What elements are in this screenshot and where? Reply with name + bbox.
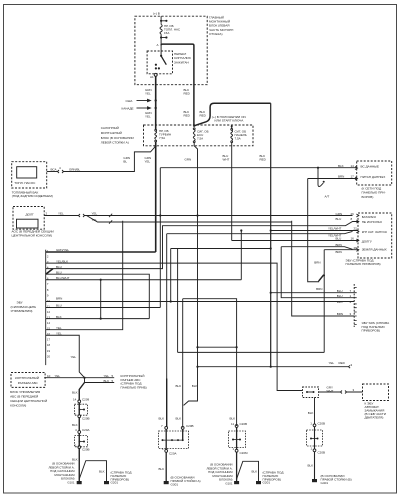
svg-text:САЛОННЫЙ: САЛОННЫЙ xyxy=(101,126,119,130)
pin4-5 wedge arrow xyxy=(46,269,53,275)
svg-text:WHT: WHT xyxy=(223,158,230,162)
svg-text:YEL/WHT: YEL/WHT xyxy=(328,227,342,231)
svg-text:BLU: BLU xyxy=(336,217,342,221)
svg-text:ВС ДАННЫЕ: ВС ДАННЫЕ xyxy=(361,165,379,169)
svg-text:BL: BL xyxy=(123,160,127,164)
wire: BLK/RED branch to right feeder xyxy=(194,103,271,126)
svg-text:ВСА: ВСА xyxy=(51,167,57,171)
svg-text:YEL: YEL xyxy=(92,218,98,222)
wire: V170 drop to BRN row corner xyxy=(170,249,172,302)
starter lock ECU box (dashed) xyxy=(363,384,389,401)
splice box 1b xyxy=(78,433,80,445)
svg-text:ПИТАН ДАННЫХ: ПИТАН ДАННЫХ xyxy=(361,175,386,179)
diagnostic link connector box (right top) xyxy=(357,161,392,185)
fuel pump unit box (dashed) xyxy=(12,162,47,188)
svg-text:7,5А: 7,5А xyxy=(159,136,165,140)
svg-text:C20A: C20A xyxy=(169,451,177,455)
svg-text:(+) B: (+) B xyxy=(153,12,160,16)
svg-text:КОНСОЛИ): КОНСОЛИ) xyxy=(10,404,26,408)
svg-text:BLK: BLK xyxy=(56,315,62,319)
svg-text:20: 20 xyxy=(47,354,51,358)
ground texts left xyxy=(206,463,233,486)
ABS check connector box (left bottom, dashed) xyxy=(11,373,45,388)
svg-text:C20B: C20B xyxy=(186,424,194,428)
svg-text:C20M: C20M xyxy=(240,451,249,455)
svg-text:США: США xyxy=(126,99,133,103)
svg-text:C20A: C20A xyxy=(82,428,90,432)
pin10 wire BRN long to SRS xyxy=(46,301,355,303)
interior junction block (dashed) with 3 fuses xyxy=(144,125,254,146)
pin13 loop bottom row xyxy=(46,318,150,320)
junction dots above fuse xyxy=(160,20,167,22)
connector C20M exit xyxy=(235,449,238,452)
wire: splice to starter-lock ECU box xyxy=(319,391,363,393)
wire to ground G301 xyxy=(165,452,167,481)
svg-text:RED: RED xyxy=(260,158,267,162)
svg-text:YEL: YEL xyxy=(55,374,61,378)
pin1 wire GRN/YEL from main power xyxy=(46,251,156,253)
svg-text:14: 14 xyxy=(73,398,77,402)
svg-text:G301: G301 xyxy=(171,482,179,486)
svg-text:УПРАВЛЕНИЯ): УПРАВЛЕНИЯ) xyxy=(11,309,33,313)
svg-text:GRN: GRN xyxy=(336,212,343,216)
svg-text:BRN: BRN xyxy=(316,287,322,291)
svg-text:BLU: BLU xyxy=(56,304,62,308)
pin3 wire YEL/BLK to MAC feeder xyxy=(46,263,303,390)
svg-text:ЛЕВОЙ СТОЙКИ А): ЛЕВОЙ СТОЙКИ А) xyxy=(101,141,129,145)
V240.8 link down to pin6 row xyxy=(240,231,242,280)
svg-text:BLU: BLU xyxy=(337,289,343,293)
row BLU pin16 xyxy=(232,240,358,242)
svg-text:BLU: BLU xyxy=(56,270,62,274)
connector C20B exit xyxy=(313,449,316,452)
svg-text:BLK: BLK xyxy=(308,411,314,415)
rows BRN pair pin28 xyxy=(281,247,358,250)
connector C20B lower xyxy=(78,446,81,449)
svg-text:BLK: BLK xyxy=(176,417,182,421)
wire: splice branch down to cluster 4 xyxy=(314,398,316,425)
svg-text:BLU: BLU xyxy=(337,300,343,304)
connector C209 xyxy=(78,400,81,403)
wire: cross link to fuse drop xyxy=(198,346,237,348)
svg-text:G201: G201 xyxy=(111,481,119,485)
wire: link over to cluster3 feeder xyxy=(183,299,237,426)
svg-text:BLK: BLK xyxy=(338,164,344,168)
fuse ПР.ОБ ТУРБИН 7.5А xyxy=(155,129,157,142)
A/T branch switch xyxy=(317,167,325,183)
svg-text:10: 10 xyxy=(47,299,51,303)
svg-text:BLK: BLK xyxy=(99,469,105,473)
SRS row1 from right feeder xyxy=(271,292,355,294)
wire: ABS YEL row xyxy=(44,377,114,379)
fuel pump inner box xyxy=(17,167,37,178)
connector C20B xyxy=(78,415,81,418)
ECU pin numbers 1-20 xyxy=(47,249,51,358)
svg-text:BLU: BLU xyxy=(336,237,342,241)
svg-text:RED: RED xyxy=(339,361,346,365)
ground left xyxy=(234,481,239,484)
svg-text:14: 14 xyxy=(47,321,51,325)
ignition switch S (blade) xyxy=(160,47,162,56)
P-switch on ground-data wire xyxy=(323,250,325,353)
svg-text:BLK: BLK xyxy=(72,423,78,427)
svg-text:НЕ ИСПОЛЬЗ: НЕ ИСПОЛЬЗ xyxy=(362,220,382,224)
svg-text:BLU/WHT: BLU/WHT xyxy=(56,276,70,280)
svg-text:YEL: YEL xyxy=(58,211,64,215)
svg-text:12: 12 xyxy=(47,310,51,314)
V291 drop to SRS row1 xyxy=(292,221,355,316)
svg-text:10: 10 xyxy=(47,374,51,378)
svg-text:WHT: WHT xyxy=(327,389,334,393)
junction dot on main wire xyxy=(154,145,156,147)
wire: AOC YEL out xyxy=(44,215,352,217)
svg-text:БАТАРЕЯ: БАТАРЕЯ xyxy=(362,215,376,219)
svg-text:C20B: C20B xyxy=(318,451,326,455)
svg-text:BLK: BLK xyxy=(159,467,165,471)
svg-text:BLK: BLK xyxy=(192,384,198,388)
svg-text:БОРОВ): БОРОВ) xyxy=(362,195,374,199)
ground G101 xyxy=(77,481,82,484)
svg-text:A: A xyxy=(157,43,159,47)
svg-text:GRN/BL: GRN/BL xyxy=(69,167,81,171)
svg-text:ЦЕНТРАЛЬНОЙ КОНСОЛИ): ЦЕНТРАЛЬНОЙ КОНСОЛИ) xyxy=(12,234,52,238)
ground texts G101 xyxy=(48,462,75,485)
svg-text:BLK: BLK xyxy=(104,379,110,383)
connector C20A xyxy=(78,431,81,434)
connector C20B xyxy=(235,425,238,428)
svg-text:18: 18 xyxy=(47,343,51,347)
svg-text:YEL: YEL xyxy=(56,326,62,330)
svg-text:BLK: BLK xyxy=(308,464,314,468)
svg-text:C20B: C20B xyxy=(318,422,326,426)
svg-text:YEL/BLK: YEL/BLK xyxy=(56,259,68,263)
svg-text:ТОПЛ. НАСОС: ТОПЛ. НАСОС xyxy=(14,181,36,185)
splice box 2 xyxy=(166,429,183,449)
wire down from ABS junction xyxy=(79,383,84,401)
fuse СИГ.ОБ ECU 7.5А xyxy=(193,128,195,143)
main fuse/relay box (dashed) top xyxy=(135,16,207,85)
svg-text:YEL: YEL xyxy=(71,355,77,359)
svg-text:GRN/YEL: GRN/YEL xyxy=(56,248,70,252)
wire: battery feed into fuse xyxy=(160,16,162,24)
svg-text:G101: G101 xyxy=(67,481,74,485)
svg-text:МОНТАЖНЫЙ: МОНТАЖНЫЙ xyxy=(101,131,122,135)
rows YEL/WHT pair pin22 xyxy=(167,231,358,234)
svg-text:C20B: C20B xyxy=(240,422,248,426)
branch to ground right xyxy=(237,461,259,481)
splice slash ticks xyxy=(109,214,112,224)
svg-text:G101: G101 xyxy=(225,482,232,486)
ground run from KGR row down to splice cluster 2 xyxy=(166,234,168,379)
svg-text:БЛОК УПРАВЛЕНИЯ: БЛОК УПРАВЛЕНИЯ xyxy=(10,390,40,394)
svg-text:GRN: GRN xyxy=(185,158,192,162)
svg-text:СЕКЦИИ ЦЕНТРАЛЬНОЙ: СЕКЦИИ ЦЕНТРАЛЬНОЙ xyxy=(10,399,47,403)
svg-text:7,5А: 7,5А xyxy=(197,137,203,141)
svg-text:G201: G201 xyxy=(263,481,271,485)
wire: BRN row to pin 17 xyxy=(308,178,357,180)
svg-text:БЛОК (В ОСНОВАНИИ: БЛОК (В ОСНОВАНИИ xyxy=(101,136,134,140)
svg-text:КОНТРОЛЬНЫЙ: КОНТРОЛЬНЫЙ xyxy=(15,376,39,380)
cluster ECU box (right, battery rows) xyxy=(358,213,392,258)
AOC sensor box (dashed) xyxy=(13,207,44,230)
inline connector on AOC wire xyxy=(79,214,85,217)
wire: V177 drop to bottom long row xyxy=(177,249,179,353)
svg-text:BLK: BLK xyxy=(159,417,165,421)
svg-text:ПАНЕЛЬЮ ПРИБ): ПАНЕЛЬЮ ПРИБ) xyxy=(121,385,147,389)
wire: BLK row to pin 14 xyxy=(160,167,356,169)
svg-text:RED: RED xyxy=(184,113,191,117)
svg-text:BRN: BRN xyxy=(338,175,344,179)
svg-text:BLK: BLK xyxy=(176,384,182,388)
svg-text:RED: RED xyxy=(184,92,191,96)
svg-text:ДОЛГ: ДОЛГ xyxy=(26,213,34,217)
svg-text:17: 17 xyxy=(351,175,355,179)
connector C20B xyxy=(313,424,316,427)
wire: long row to P-switch leg xyxy=(178,351,325,353)
svg-text:YEL: YEL xyxy=(145,160,151,164)
splice box 1a xyxy=(78,403,80,415)
pin4 wire BLU up and over to right box pin8 xyxy=(46,222,358,269)
pin15 wire YEL from AOC branch xyxy=(46,221,123,330)
pin16 wire YEL down to ABS junction xyxy=(46,335,85,377)
connector C20A exit xyxy=(165,450,168,453)
splice box 4 xyxy=(314,427,316,449)
splice dots USA / CANADA xyxy=(155,99,157,109)
wire: drop to splice cluster 2 with link corner xyxy=(182,299,184,428)
wire: H248 cross link xyxy=(171,248,271,250)
svg-text:КАНАДЕ: КАНАДЕ xyxy=(122,106,134,110)
svg-text:ДОЛГУ: ДОЛГУ xyxy=(362,240,372,244)
MAC row: feeder output to starter lock xyxy=(198,366,349,368)
svg-text:КГР КАТ. ЗАПУСК: КГР КАТ. ЗАПУСК xyxy=(362,230,388,234)
wire: branch from fuse node to BLK/RED feed xyxy=(161,44,194,127)
wire: switch output GRN/YEL main power (bold) xyxy=(155,76,157,252)
pin11 wire BLU up to BLK-row corner xyxy=(46,307,161,309)
svg-text:BRN: BRN xyxy=(337,312,343,316)
AOC inner box xyxy=(17,219,39,228)
svg-text:YEL: YEL xyxy=(92,211,98,215)
splice box 3 xyxy=(236,427,238,449)
wire to ground xyxy=(236,452,238,481)
svg-text:YEL: YEL xyxy=(329,361,335,365)
svg-text:РАЗЪЕМ АБС: РАЗЪЕМ АБС xyxy=(18,381,39,385)
svg-text:ПРИБОРОВ): ПРИБОРОВ) xyxy=(362,329,380,333)
wire to ground G101 xyxy=(78,449,80,482)
ground G301 xyxy=(164,481,169,484)
svg-text:BRN: BRN xyxy=(336,243,342,247)
wire: right feeder down (to MAC area) xyxy=(270,103,272,367)
wire: fuel pump GRN/BL up to main xyxy=(47,146,156,171)
svg-text:BRN: BRN xyxy=(314,261,320,265)
svg-text:ПАНЕЛЬЮ ПРИБОРОВ): ПАНЕЛЬЮ ПРИБОРОВ) xyxy=(346,262,381,266)
pin5 wire BLU loop to pin13 xyxy=(46,274,150,318)
svg-text:YEL: YEL xyxy=(145,92,151,96)
svg-text:BLU: BLU xyxy=(337,294,343,298)
svg-text:RED: RED xyxy=(200,113,207,117)
svg-text:BRN: BRN xyxy=(56,296,62,300)
connector pair C20B xyxy=(165,427,184,430)
center mesh: drop from BLK row corner xyxy=(159,168,161,308)
ECU connector pin column xyxy=(45,250,47,365)
SRS connector column (dashed) xyxy=(353,284,355,327)
svg-text:YEL: YEL xyxy=(104,374,110,378)
svg-text:19: 19 xyxy=(47,349,51,353)
svg-text:ЗЕМЛЯ ДАННЫХ: ЗЕМЛЯ ДАННЫХ xyxy=(362,248,387,252)
svg-text:(ПОД ЗАДНИМ СИДЕНЬЕМ): (ПОД ЗАДНИМ СИДЕНЬЕМ) xyxy=(12,194,53,198)
svg-text:11: 11 xyxy=(231,422,234,426)
svg-text:A1: A1 xyxy=(150,75,154,79)
svg-text:YEL: YEL xyxy=(145,115,151,119)
V280 drop to SRS row2 xyxy=(281,247,354,298)
MAC splice box (dashed) xyxy=(303,387,319,398)
svg-text:BLK: BLK xyxy=(72,391,78,395)
branch to ground G201 xyxy=(79,461,106,481)
svg-text:BLK: BLK xyxy=(252,469,258,473)
switch output terminal circle xyxy=(154,73,157,76)
inner ignition switch dashed box xyxy=(147,51,172,74)
svg-text:ДВИГАТЕЛЯ): ДВИГАТЕЛЯ) xyxy=(365,416,384,420)
svg-text:BLK: BLK xyxy=(230,417,236,421)
svg-text:C20B: C20B xyxy=(82,417,90,421)
svg-text:17: 17 xyxy=(47,338,51,342)
connector entry arrows R1/R2 xyxy=(355,167,359,252)
junction dots below fuse xyxy=(160,36,167,38)
svg-text:14: 14 xyxy=(351,164,355,168)
svg-text:7,5А: 7,5А xyxy=(235,137,241,141)
inline connector on fuel pump wire xyxy=(58,170,64,173)
svg-text:G401: G401 xyxy=(321,481,329,485)
wire: AOC lower split YEL xyxy=(87,216,292,223)
wire: fuse ECU output down then left xyxy=(184,143,198,406)
fuse СИГ.ОБ ПАНЕЛЬ 7.5А xyxy=(231,126,233,128)
svg-text:ОТСЕКА): ОТСЕКА) xyxy=(209,32,223,36)
wire: fuse ПАНЕЛЬ output down xyxy=(231,143,233,241)
svg-text:C20B: C20B xyxy=(82,448,90,452)
svg-text:BLU: BLU xyxy=(56,265,62,269)
wire: ABS BLK row xyxy=(85,378,115,383)
svg-text:YEL: YEL xyxy=(56,331,62,335)
svg-text:ЗАЖИГАН: ЗАЖИГАН xyxy=(174,60,189,64)
svg-text:C209: C209 xyxy=(82,398,90,402)
pin6 loop BLU/WHT xyxy=(46,279,242,281)
svg-text:16: 16 xyxy=(351,237,355,241)
svg-text:15А: 15А xyxy=(164,31,169,35)
svg-text:BRN: BRN xyxy=(336,250,342,254)
svg-text:26: 26 xyxy=(351,212,355,216)
svg-text:ИЛИ START КЛЮЧА: ИЛИ START КЛЮЧА xyxy=(214,119,244,123)
wire: V307 drop from BRN pin17 row to switch xyxy=(308,179,319,282)
svg-text:АБС (В ПЕРЕДНЕЙ: АБС (В ПЕРЕДНЕЙ xyxy=(10,395,38,399)
svg-text:А/Т: А/Т xyxy=(325,195,330,199)
fuse F: ПР.ОБ ТОПЛ.НАС 15A (wavy symbol) xyxy=(160,25,162,48)
wire to ground xyxy=(314,452,316,480)
